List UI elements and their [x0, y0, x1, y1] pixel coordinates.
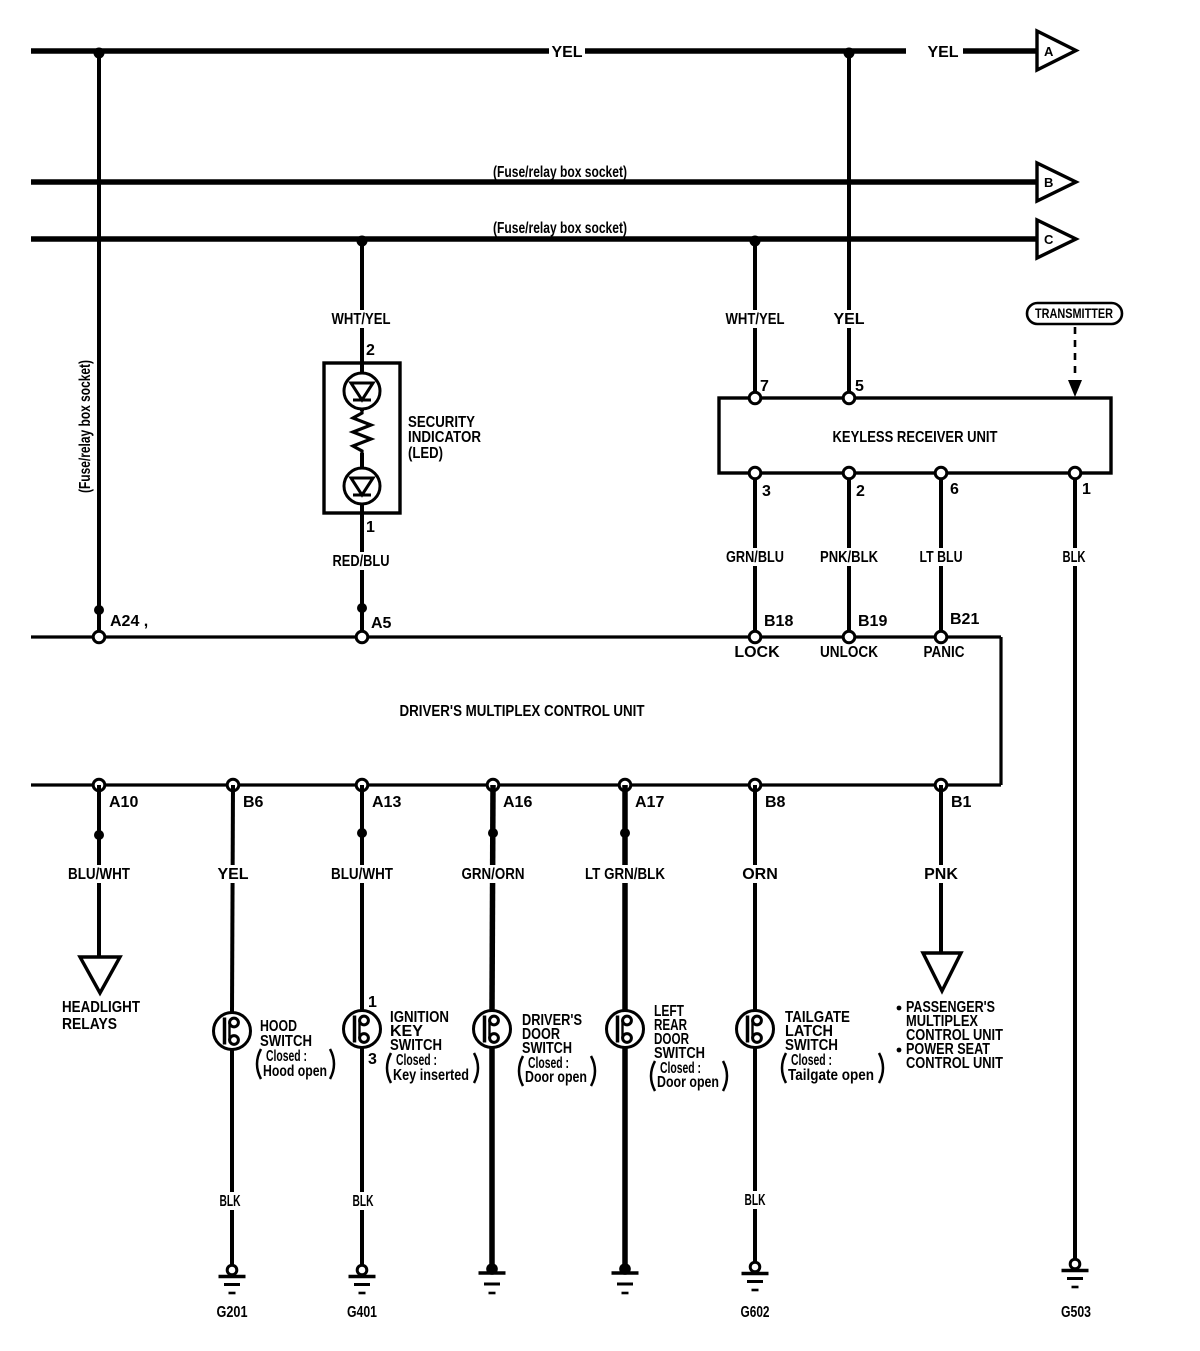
svg-text:1: 1	[368, 994, 377, 1011]
svg-text:2: 2	[856, 483, 865, 500]
svg-text:A5: A5	[371, 615, 392, 632]
svg-text:LT GRN/BLK: LT GRN/BLK	[585, 866, 665, 883]
svg-text:WHT/YEL: WHT/YEL	[726, 311, 785, 328]
svg-text:ORN: ORN	[742, 866, 778, 883]
svg-text:BLK: BLK	[745, 1192, 766, 1209]
svg-text:2: 2	[366, 342, 375, 359]
svg-text:TRANSMITTER: TRANSMITTER	[1035, 305, 1113, 321]
svg-text:A16: A16	[503, 794, 532, 811]
svg-text:3: 3	[368, 1051, 377, 1068]
svg-text:G602: G602	[741, 1304, 770, 1321]
svg-text:3: 3	[762, 483, 771, 500]
svg-text:A17: A17	[635, 794, 664, 811]
svg-text:7: 7	[760, 378, 769, 395]
svg-text:B1: B1	[951, 794, 972, 811]
svg-text:LT BLU: LT BLU	[920, 549, 963, 566]
svg-text:GRN/ORN: GRN/ORN	[462, 866, 525, 883]
svg-text:(Fuse/relay box socket): (Fuse/relay box socket)	[493, 220, 627, 237]
svg-text:(Fuse/relay box socket): (Fuse/relay box socket)	[77, 360, 94, 493]
svg-text:BLK: BLK	[1063, 549, 1086, 566]
svg-text:YEL: YEL	[927, 44, 958, 61]
svg-text:Tailgate open: Tailgate open	[788, 1067, 874, 1084]
svg-text:6: 6	[950, 481, 959, 498]
svg-text:YEL: YEL	[217, 866, 248, 883]
svg-text:PNK: PNK	[924, 866, 958, 883]
svg-text:GRN/BLU: GRN/BLU	[726, 549, 784, 566]
svg-text:A: A	[1044, 44, 1054, 59]
svg-text:CONTROL UNIT: CONTROL UNIT	[906, 1055, 1003, 1072]
svg-text:INDICATOR: INDICATOR	[408, 429, 481, 446]
svg-text:(Fuse/relay box socket): (Fuse/relay box socket)	[493, 164, 627, 181]
svg-text:RELAYS: RELAYS	[62, 1016, 117, 1033]
svg-text:WHT/YEL: WHT/YEL	[332, 311, 391, 328]
svg-text:BLK: BLK	[353, 1193, 374, 1210]
svg-text:UNLOCK: UNLOCK	[820, 644, 878, 661]
svg-text:B18: B18	[764, 613, 793, 630]
svg-text:PNK/BLK: PNK/BLK	[820, 549, 878, 566]
svg-text:BLU/WHT: BLU/WHT	[68, 866, 130, 883]
svg-text:5: 5	[855, 378, 864, 395]
svg-text:YEL: YEL	[551, 44, 582, 61]
svg-text:YEL: YEL	[833, 311, 864, 328]
svg-text:Door open: Door open	[525, 1069, 587, 1086]
svg-text:A13: A13	[372, 794, 401, 811]
svg-text:C: C	[1044, 232, 1054, 247]
svg-text:DRIVER'S MULTIPLEX CONTROL UNI: DRIVER'S MULTIPLEX CONTROL UNIT	[400, 703, 645, 720]
svg-text:RED/BLU: RED/BLU	[333, 553, 390, 570]
svg-text:G503: G503	[1061, 1304, 1091, 1321]
svg-text:BLK: BLK	[220, 1193, 241, 1210]
svg-text:LOCK: LOCK	[734, 644, 780, 661]
svg-text:B21: B21	[950, 611, 979, 628]
svg-text:G201: G201	[217, 1304, 248, 1321]
svg-text:Door open: Door open	[657, 1074, 719, 1091]
svg-text:B19: B19	[858, 613, 887, 630]
svg-text:HEADLIGHT: HEADLIGHT	[62, 999, 140, 1016]
svg-text:BLU/WHT: BLU/WHT	[331, 866, 393, 883]
svg-text:KEYLESS RECEIVER UNIT: KEYLESS RECEIVER UNIT	[833, 429, 998, 446]
svg-text:1: 1	[366, 519, 375, 536]
svg-text:B8: B8	[765, 794, 786, 811]
svg-text:B: B	[1044, 175, 1053, 190]
svg-text:Hood open: Hood open	[263, 1063, 327, 1080]
svg-text:G401: G401	[347, 1304, 377, 1321]
svg-text:1: 1	[1082, 481, 1091, 498]
svg-text:PANIC: PANIC	[924, 644, 965, 661]
svg-text:Key inserted: Key inserted	[393, 1067, 469, 1084]
svg-text:B6: B6	[243, 794, 264, 811]
svg-text:A24 ,: A24 ,	[110, 613, 148, 630]
svg-text:(LED): (LED)	[408, 445, 443, 462]
svg-text:A10: A10	[109, 794, 138, 811]
